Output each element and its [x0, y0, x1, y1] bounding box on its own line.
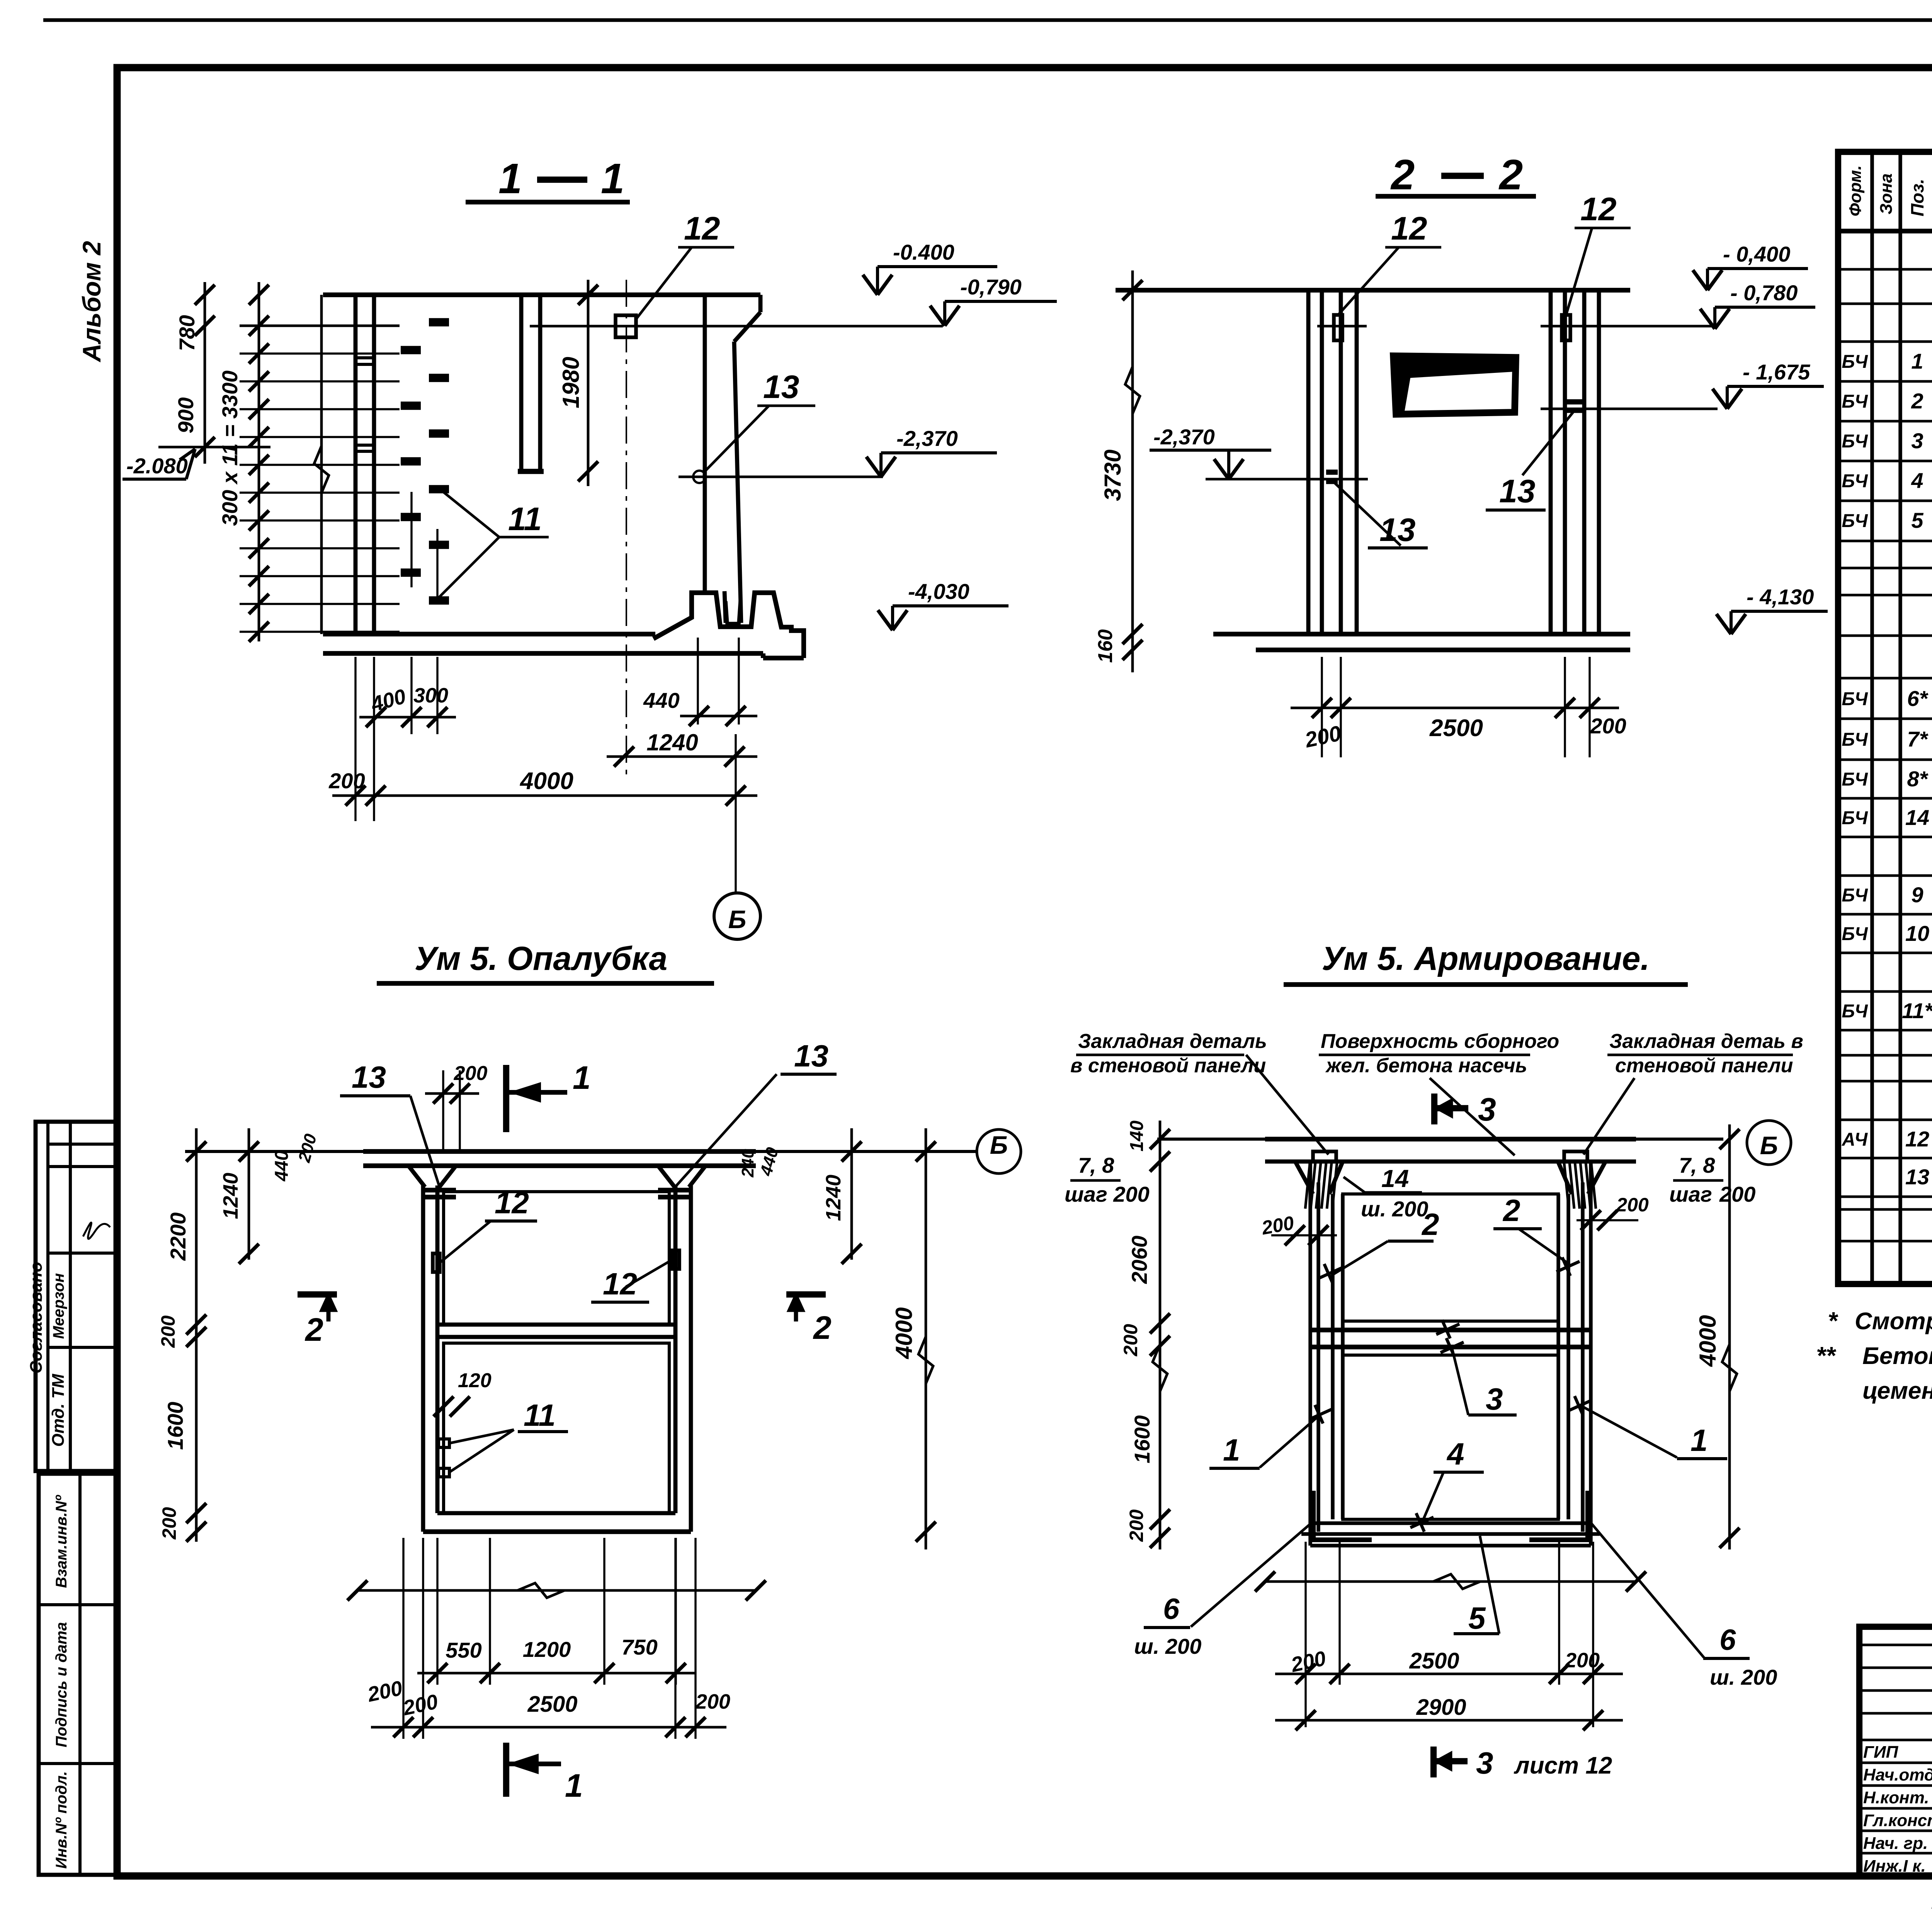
svg-text:4: 4	[1911, 468, 1923, 493]
formwork mid divider	[437, 1323, 675, 1327]
bottom extension lines 1-1	[354, 657, 356, 821]
svg-text:140: 140	[1127, 1121, 1147, 1151]
dimension 1240	[607, 755, 757, 758]
svg-text:11: 11	[508, 501, 542, 537]
svg-text:300 x 11 = 3300: 300 x 11 = 3300	[218, 371, 242, 526]
svg-text:12: 12	[1391, 210, 1427, 247]
floor of section 2-2	[1213, 632, 1630, 636]
svg-text:Закладная детаь в: Закладная детаь в	[1609, 1030, 1803, 1053]
svg-text:3: 3	[1486, 1382, 1503, 1416]
formwork top axis line	[185, 1150, 976, 1153]
svg-text:-0,790: -0,790	[960, 275, 1022, 299]
svg-text:БЧ: БЧ	[1842, 689, 1868, 709]
svg-text:-4,030: -4,030	[908, 579, 969, 604]
svg-text:4: 4	[1446, 1437, 1464, 1471]
bottom bars	[1310, 1521, 1591, 1525]
items 11 marks with leaders	[439, 1439, 449, 1447]
svg-text:7, 8: 7, 8	[1679, 1153, 1715, 1177]
svg-text:750: 750	[621, 1635, 657, 1659]
svg-text:300: 300	[413, 684, 448, 707]
svg-text:БЧ: БЧ	[1842, 1001, 1868, 1022]
svg-text:1600: 1600	[163, 1402, 187, 1450]
svg-text:12: 12	[684, 210, 720, 247]
embedded plates 13 at top with leaders	[425, 1188, 456, 1192]
stamp column upper group	[36, 1122, 117, 1471]
svg-text:- 4,130: - 4,130	[1747, 585, 1814, 609]
upper compartment mesh rect	[1343, 1194, 1558, 1321]
svg-text:1980: 1980	[558, 357, 584, 408]
formwork dims 200 2500 200	[402, 1538, 404, 1739]
svg-text:200: 200	[1126, 1509, 1147, 1542]
formwork outer walls	[421, 1185, 425, 1532]
svg-text:7, 8: 7, 8	[1078, 1153, 1114, 1177]
svg-text:6: 6	[1719, 1624, 1736, 1656]
bottom extension lines 2-2	[1321, 657, 1323, 757]
svg-text:- 0,780: - 0,780	[1730, 281, 1798, 305]
svg-text:Подпись и дата: Подпись и дата	[53, 1622, 70, 1747]
right wall of section 1-1 tapered	[703, 295, 707, 591]
corner bars bottom-right	[1529, 1491, 1588, 1540]
svg-text:160: 160	[1094, 629, 1117, 663]
svg-text:Б: Б	[1760, 1131, 1778, 1160]
level line -2.370	[679, 476, 883, 478]
formwork left haunch	[408, 1166, 425, 1187]
formwork left dim 1240	[248, 1128, 250, 1260]
right dim 4000 reinforcement	[1728, 1124, 1731, 1549]
axis circle B formwork	[977, 1129, 1021, 1173]
svg-text:200: 200	[454, 1062, 488, 1085]
axis circle B	[714, 893, 760, 939]
svg-text:1: 1	[498, 155, 522, 202]
axis line to circle B	[735, 734, 736, 893]
specification table header	[1838, 229, 1932, 233]
svg-text:2200: 2200	[166, 1213, 190, 1261]
svg-text:13: 13	[1379, 512, 1415, 548]
svg-text:1240: 1240	[219, 1173, 242, 1219]
svg-text:Зона: Зона	[1877, 173, 1896, 214]
svg-text:ГИП: ГИП	[1863, 1743, 1899, 1762]
svg-text:2500: 2500	[1429, 715, 1483, 742]
embedded plate 12 right with leader	[672, 1250, 679, 1269]
svg-text:200: 200	[695, 1690, 730, 1713]
svg-text:-2.080: -2.080	[126, 454, 188, 478]
svg-text:900: 900	[173, 397, 198, 433]
svg-text:Инж.I к.: Инж.I к.	[1863, 1857, 1926, 1876]
svg-text:2500: 2500	[527, 1692, 577, 1717]
svg-text:240: 240	[738, 1149, 757, 1178]
svg-text:13: 13	[1499, 473, 1535, 509]
formwork dims 550 1200 750	[436, 1538, 438, 1685]
svg-text:1: 1	[565, 1767, 583, 1804]
corner bars bottom-left	[1313, 1491, 1372, 1540]
left wall of section 1-1	[354, 295, 358, 634]
section mark 2 left	[298, 1291, 337, 1298]
embedded plate 12 right	[1562, 315, 1570, 340]
svg-text:шаг: шаг	[1669, 1182, 1712, 1206]
formwork inner walls	[435, 1185, 440, 1513]
svg-text:шаг 200: шаг 200	[1065, 1182, 1150, 1206]
svg-text:4000: 4000	[891, 1307, 917, 1359]
svg-text:2: 2	[1421, 1207, 1439, 1242]
svg-text:9: 9	[1911, 883, 1923, 907]
title block outer	[1859, 1627, 1932, 1876]
lower compartment mesh rect	[1343, 1355, 1558, 1519]
svg-text:Инв.Nº подл.: Инв.Nº подл.	[53, 1771, 70, 1869]
svg-text:11*: 11*	[1902, 998, 1932, 1023]
svg-text:Смотри ведомость деталей на: Смотри ведомость деталей на листе 12 .	[1855, 1308, 1932, 1335]
svg-text:200: 200	[1719, 1182, 1755, 1206]
left wall reinforcement lines	[1308, 1162, 1312, 1546]
floor slab of section 1-1	[323, 632, 655, 636]
reinforcement long bottom line with break	[1265, 1580, 1636, 1583]
svg-text:13: 13	[763, 369, 799, 405]
left excavation line with break	[320, 295, 323, 634]
section 2-2 top line	[1116, 288, 1630, 293]
title block signature rows	[1859, 1644, 1932, 1646]
formwork top slab	[363, 1149, 756, 1154]
svg-text:12: 12	[1580, 191, 1616, 227]
svg-text:3: 3	[1911, 429, 1923, 453]
svg-text:лист 12: лист 12	[1514, 1752, 1612, 1779]
formwork lower compartment	[444, 1343, 669, 1513]
svg-text:в стеновой панели: в стеновой панели	[1070, 1054, 1266, 1077]
svg-text:БЧ: БЧ	[1842, 471, 1868, 492]
left dimension 3730/160	[1131, 270, 1134, 672]
formwork right dim 1240	[850, 1128, 853, 1260]
svg-text:Гл.конст.: Гл.конст.	[1863, 1811, 1932, 1830]
svg-text:Поз.: Поз.	[1907, 179, 1927, 216]
svg-text:БЧ: БЧ	[1842, 885, 1868, 906]
section mark 1 bottom	[503, 1743, 509, 1797]
svg-text:Поверхность сборного: Поверхность сборного	[1321, 1030, 1559, 1053]
level line -1.675	[1541, 408, 1718, 410]
svg-text:200: 200	[1590, 714, 1626, 738]
svg-text:ш. 200: ш. 200	[1134, 1634, 1201, 1658]
svg-text:*: *	[1828, 1307, 1838, 1335]
svg-text:1200: 1200	[523, 1637, 571, 1662]
right wall of section 2-2	[1549, 290, 1553, 634]
reinforcement dim 2900	[1275, 1719, 1623, 1722]
svg-text:4000: 4000	[519, 768, 573, 794]
vertical dimension line 300x11=3300	[258, 282, 260, 641]
svg-text:200: 200	[1120, 1324, 1141, 1357]
svg-text:2: 2	[1502, 1193, 1520, 1228]
formwork upper compartment	[444, 1192, 669, 1325]
svg-text:стеновой панели: стеновой панели	[1615, 1054, 1793, 1077]
svg-text:2: 2	[813, 1310, 832, 1346]
rebar mesh dashes item 11	[429, 318, 449, 327]
svg-text:жел. бетона насечь: жел. бетона насечь	[1325, 1054, 1527, 1077]
svg-text:12: 12	[495, 1185, 529, 1220]
mesh x-marks	[1318, 1268, 1342, 1279]
svg-text:БЧ: БЧ	[1842, 352, 1868, 372]
svg-text:440: 440	[272, 1150, 292, 1182]
svg-text:780: 780	[175, 315, 199, 351]
formwork right dim 4000	[925, 1128, 927, 1549]
stamp column lower group	[39, 1474, 117, 1875]
svg-text:Альбом 2: Альбом 2	[77, 241, 106, 362]
svg-text:Бетон марки W 8 на сульфат: Бетон марки W 8 на сульфатостойком портл…	[1862, 1343, 1932, 1369]
svg-text:БЧ: БЧ	[1842, 808, 1868, 828]
svg-text:БЧ: БЧ	[1842, 431, 1868, 452]
svg-text:Б: Б	[990, 1131, 1008, 1159]
dimension 200 and 4000	[332, 794, 757, 797]
svg-text:Ум 5. Опалубка: Ум 5. Опалубка	[415, 940, 668, 977]
svg-text:10: 10	[1905, 921, 1929, 946]
extension verticals through dashes	[410, 492, 412, 587]
svg-text:2060: 2060	[1127, 1236, 1151, 1284]
svg-text:2: 2	[1498, 151, 1523, 199]
svg-text:- 0,400: - 0,400	[1723, 242, 1790, 266]
svg-text:**: **	[1816, 1342, 1837, 1369]
formwork right haunch	[689, 1166, 706, 1187]
svg-text:12: 12	[603, 1267, 637, 1301]
dimension 440	[680, 715, 757, 718]
specification table column lines	[1870, 152, 1874, 1284]
svg-text:Отд. ТМ: Отд. ТМ	[49, 1373, 68, 1447]
svg-text:4000: 4000	[1695, 1315, 1721, 1367]
svg-text:ш. 200: ш. 200	[1710, 1665, 1777, 1689]
svg-text:-2,370: -2,370	[896, 426, 958, 451]
center axis dash-dot	[626, 280, 627, 781]
svg-text:БЧ: БЧ	[1842, 769, 1868, 790]
svg-text:Нач.отд: Нач.отд	[1863, 1765, 1932, 1784]
svg-text:Взам.инв.Nº: Взам.инв.Nº	[53, 1495, 70, 1588]
formwork left dim chain	[195, 1128, 198, 1542]
section mark 3 top	[1431, 1094, 1437, 1124]
sheet top edge line	[43, 18, 1932, 22]
svg-text:14: 14	[1381, 1165, 1409, 1192]
svg-text:БЧ: БЧ	[1842, 511, 1868, 531]
svg-text:2: 2	[1390, 151, 1415, 199]
svg-text:2: 2	[304, 1311, 323, 1348]
svg-text:1: 1	[1690, 1423, 1708, 1458]
svg-text:3730: 3730	[1100, 449, 1126, 501]
wall end in footing groove	[724, 591, 726, 623]
specification table outer box	[1838, 152, 1932, 1284]
embedded plate 12 with leader	[616, 315, 636, 337]
svg-text:6*: 6*	[1907, 686, 1929, 711]
reinforcement dims 200 2500 200	[1304, 1542, 1306, 1685]
svg-text:цементе.: цементе.	[1862, 1378, 1932, 1404]
svg-text:- 1,675: - 1,675	[1743, 360, 1810, 384]
svg-text:200: 200	[328, 769, 365, 793]
leader lines to label 11	[443, 492, 499, 537]
svg-text:200: 200	[158, 1507, 180, 1540]
svg-text:БЧ: БЧ	[1842, 924, 1868, 944]
section mark 2 right	[786, 1291, 826, 1298]
wall joint marks	[355, 356, 374, 359]
svg-text:3: 3	[1476, 1746, 1493, 1780]
svg-text:11: 11	[524, 1398, 556, 1432]
svg-text:5: 5	[1468, 1601, 1486, 1635]
svg-text:Н.конт.: Н.конт.	[1863, 1788, 1929, 1807]
level line -0.790	[530, 325, 943, 328]
embedded plate 12 left with leader	[433, 1253, 440, 1272]
vertical dimension line 780/900	[204, 282, 206, 464]
dimension 1980	[587, 280, 590, 486]
elevation -4,130	[1730, 611, 1733, 634]
svg-text:2500: 2500	[1409, 1648, 1459, 1673]
svg-text:Согласовано: Согласовано	[27, 1262, 46, 1373]
svg-text:АЧ: АЧ	[1842, 1129, 1868, 1150]
signature squiggle	[83, 1223, 110, 1239]
svg-text:БЧ: БЧ	[1842, 391, 1868, 412]
specification table row lines	[1838, 268, 1932, 271]
dashes 13 left wall with leader	[1326, 469, 1338, 475]
svg-text:200: 200	[1565, 1649, 1600, 1672]
svg-text:7*: 7*	[1907, 727, 1929, 751]
svg-text:1: 1	[601, 155, 624, 202]
svg-text:12: 12	[1905, 1127, 1929, 1151]
svg-text:3: 3	[1478, 1091, 1496, 1128]
svg-text:550: 550	[446, 1638, 481, 1662]
svg-text:13: 13	[1905, 1165, 1929, 1189]
svg-text:-2,370: -2,370	[1153, 425, 1215, 449]
section 1-1 top slab line	[323, 293, 760, 297]
elevation marks right side 1-1	[876, 267, 879, 295]
window opening (dark)	[1393, 356, 1516, 414]
svg-text:-0.400: -0.400	[893, 240, 954, 264]
svg-text:Ум 5. Армирование.: Ум 5. Армирование.	[1322, 940, 1650, 977]
svg-text:1: 1	[1223, 1433, 1240, 1467]
svg-text:Меерзон: Меерзон	[50, 1273, 67, 1339]
elevation -1,675	[1726, 386, 1729, 409]
svg-text:6: 6	[1163, 1593, 1180, 1626]
svg-text:8*: 8*	[1907, 767, 1929, 791]
section mark 1 top	[503, 1065, 509, 1132]
level line -2.370 left	[1206, 478, 1368, 481]
dimension 400 300	[359, 716, 456, 719]
partition wall of section 1-1	[519, 295, 524, 471]
svg-text:БЧ: БЧ	[1842, 730, 1868, 750]
svg-text:13: 13	[794, 1039, 828, 1073]
formwork long bottom line with break	[357, 1589, 756, 1592]
level line -0.780 segments	[1317, 325, 1367, 328]
reinforcement top axis line	[1157, 1138, 1723, 1141]
svg-text:1: 1	[1911, 349, 1923, 373]
svg-text:440: 440	[643, 688, 679, 713]
svg-text:2: 2	[1911, 389, 1923, 413]
svg-text:200: 200	[157, 1315, 179, 1348]
svg-text:14: 14	[1905, 805, 1929, 830]
svg-text:1: 1	[573, 1060, 591, 1096]
embedded plate 12 left	[1334, 315, 1342, 340]
dimension 200 2500 200 (2-2)	[1291, 707, 1619, 709]
svg-text:1240: 1240	[822, 1175, 845, 1221]
svg-text:1240: 1240	[646, 730, 698, 755]
dashes 13 right wall with leader	[1567, 399, 1582, 405]
mid divider reinforcement	[1310, 1328, 1591, 1332]
section mark 3 bottom	[1430, 1747, 1437, 1777]
right wall reinforcement lines	[1589, 1162, 1593, 1546]
svg-text:Нач. гр.: Нач. гр.	[1863, 1834, 1928, 1853]
svg-text:Б: Б	[728, 905, 747, 934]
svg-text:ш. 200: ш. 200	[1361, 1197, 1428, 1221]
svg-text:5: 5	[1911, 508, 1923, 532]
elevation marks right side 2-2	[1706, 269, 1709, 290]
svg-text:Закладная деталь: Закладная деталь	[1078, 1030, 1267, 1053]
circle mark 13 with leader	[693, 471, 706, 483]
reinforcement top slab	[1265, 1137, 1636, 1141]
svg-text:13: 13	[352, 1060, 386, 1094]
svg-text:Форм.: Форм.	[1846, 165, 1865, 216]
svg-text:1600: 1600	[1130, 1415, 1154, 1464]
svg-text:120: 120	[458, 1369, 492, 1392]
right funnel with bar hatch	[1558, 1162, 1572, 1194]
left wall of section 2-2	[1306, 290, 1311, 634]
left funnel with bar hatch	[1295, 1162, 1313, 1194]
level extension lines (300x11 grid)	[240, 325, 400, 327]
footing of section 1-1	[653, 593, 804, 658]
svg-text:200: 200	[1616, 1194, 1649, 1216]
svg-text:2900: 2900	[1416, 1695, 1466, 1720]
